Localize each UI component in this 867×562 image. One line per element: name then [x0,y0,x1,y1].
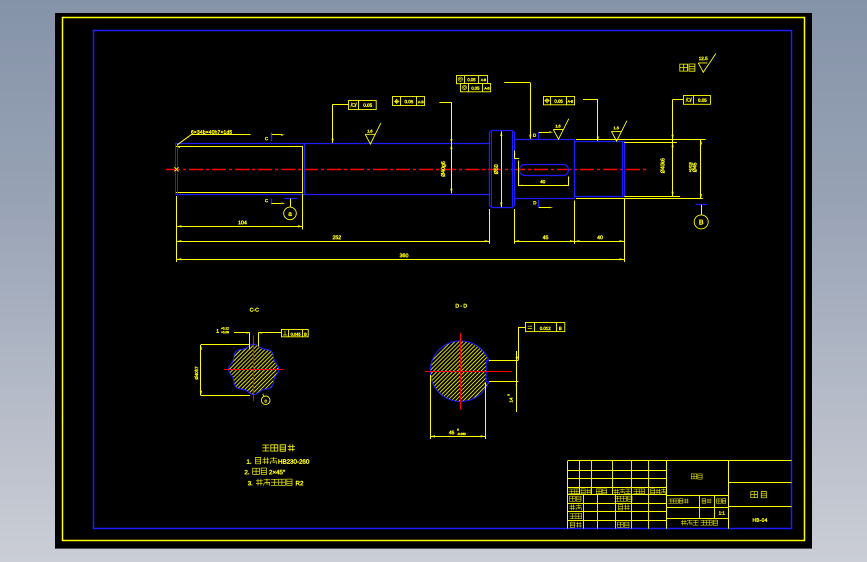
section C-C diameter dimension [201,344,250,346]
svg-text:0.05: 0.05 [363,103,372,108]
svg-text:2×45°: 2×45° [269,469,286,476]
keyway slot (blue rounded) [520,165,569,176]
svg-text:HB-04: HB-04 [752,518,767,524]
section cut D top [538,132,540,139]
shaft segment 1 spline section outline (yellow) [176,147,303,193]
datum A [285,198,297,200]
vertical dimension dia50 collar [501,131,503,207]
svg-text:R2: R2 [295,480,303,487]
roughness 1.6 on segment2 [365,123,381,144]
GDT frame E cylindricity 0.05 [684,96,711,105]
svg-text:1.6: 1.6 [555,124,560,128]
svg-text:1:1: 1:1 [719,510,726,515]
svg-text:1.: 1. [246,460,251,466]
svg-text:40: 40 [597,235,603,241]
svg-text:3.: 3. [248,481,253,487]
svg-text:C: C [265,198,268,203]
dimension 104 [177,226,303,228]
red centerline of shaft [166,169,646,171]
svg-text:360: 360 [400,253,409,259]
svg-text:a: a [288,211,292,218]
GDT frames C stacked circular runout [457,76,488,84]
svg-text:40: 40 [540,179,546,184]
dimension 252 [177,241,490,243]
svg-text:0.05: 0.05 [698,98,707,103]
GDT frame D position 0.05 A-B [544,97,575,105]
dimension 360 [177,259,625,261]
section D-D keyway width dimension 14 [489,360,518,362]
svg-text:2.: 2. [244,470,249,476]
outer yellow border frame [63,18,805,541]
dimension 40 [575,241,625,243]
svg-text:252: 252 [332,235,341,241]
svg-text:1: 1 [216,329,219,335]
svg-text:Ø45: Ø45 [693,162,699,172]
svg-text:104: 104 [238,220,247,226]
svg-text:B: B [304,332,307,337]
section C-C centerlines [224,369,283,371]
svg-text:D: D [533,133,536,138]
svg-text:B: B [559,326,562,331]
GDT frame A cylindricity 0.05 [349,101,377,110]
svg-text:1.6: 1.6 [614,126,619,130]
svg-text:14: 14 [509,397,514,402]
datum B [696,204,707,206]
svg-text:Ø40g6: Ø40g6 [441,161,447,177]
shaft segment 2 outline (blue) [176,143,490,145]
title block small texts [569,489,580,494]
svg-text:0.045: 0.045 [291,332,302,337]
GDT frame B position 0.05 A-B [393,97,425,106]
vertical dimension dia45 segment3 [700,140,702,199]
svg-text:0.05: 0.05 [405,99,414,104]
svg-text:1.6: 1.6 [367,129,372,133]
segment 4 right end face double line [622,142,624,197]
title block grid [568,460,792,462]
small yellow tick at left end centerline [174,167,178,171]
section cut C bottom [271,198,273,204]
svg-text:+0.018: +0.018 [688,162,692,172]
svg-text:Ø40h7: Ø40h7 [194,366,199,380]
svg-text:A-B: A-B [568,99,574,103]
svg-text:0.05: 0.05 [471,86,480,91]
svg-text:12.5: 12.5 [699,56,708,61]
svg-text:-0.060: -0.060 [457,432,466,436]
small datum circle on section C-C [263,394,264,397]
shaft segment 4 outline (blue) [575,142,625,197]
svg-text:Ø50: Ø50 [494,164,500,174]
svg-text:D: D [533,200,536,205]
svg-text:HB230-260: HB230-260 [278,459,310,466]
svg-text:0.012: 0.012 [540,326,552,331]
svg-text:A-B: A-B [418,100,424,104]
GDT frame G symmetry on section D-D [526,323,565,332]
vertical dimension dia40g6 with leader [439,102,451,104]
extension lines below shaft [176,196,178,262]
section D-D dimension 45 [430,375,432,439]
svg-text:D-D: D-D [455,303,468,309]
technical requirements text block [262,444,295,451]
svg-text:C: C [265,136,268,141]
svg-text:0.05: 0.05 [467,77,476,82]
svg-text:Ø40k6: Ø40k6 [661,158,667,173]
section cut C top [271,132,273,141]
svg-text:A-B: A-B [484,86,489,90]
section C-C spline profile with hatch [229,344,279,394]
svg-text:B: B [699,219,704,226]
svg-text:C-C: C-C [250,307,259,313]
roughness 1.6 on segment3 [553,119,569,140]
svg-text:A-B: A-B [481,78,486,82]
svg-text:+0.06: +0.06 [221,330,229,334]
section cut D bottom [538,200,540,208]
svg-text:45: 45 [543,235,549,241]
roughness 1.6 on segment4 [611,121,627,141]
right end extension lines [576,139,706,141]
collar / flange outline (blue, chamfered) [490,131,515,208]
shaft segment 3 keyway section outline (blue) [515,140,575,199]
section D-D shaft circle with keyway notch, hatched [430,341,489,402]
general roughness note 12.5 [680,64,695,71]
svg-text:45: 45 [449,430,455,436]
section D-D centerlines [425,371,512,373]
GDT frame F on section C-C [282,330,309,337]
shaft segment 1 left end face (blue double line) [175,144,177,195]
vertical dimension dia40k6 segment4 with cylindricity leader [673,99,684,101]
inner blue border frame [94,31,792,529]
dimension 45 [514,241,574,243]
keyway length dimension 40 [518,161,520,187]
svg-text:0.05: 0.05 [554,99,563,104]
